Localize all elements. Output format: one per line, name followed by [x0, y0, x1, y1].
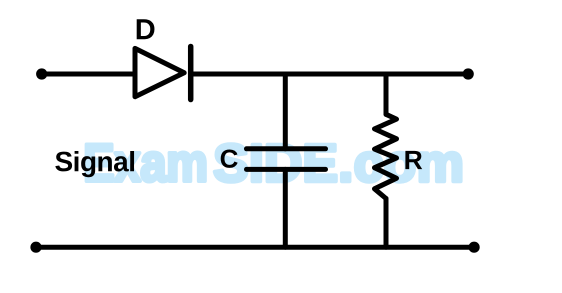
diode D cathode bar — [188, 47, 194, 100]
terminal dot top-left — [36, 68, 47, 79]
capacitor C top lead wire — [283, 74, 288, 149]
resistor R top lead wire — [384, 74, 389, 114]
watermark ExamSIDE.com — [83, 134, 464, 193]
svg-text:.com: .com — [338, 134, 464, 193]
svg-text:C: C — [220, 144, 239, 174]
resistor R zigzag — [375, 114, 397, 198]
terminal dot top-right — [463, 68, 474, 79]
terminal dot bottom-left — [30, 242, 41, 253]
svg-text:Signal: Signal — [54, 146, 135, 177]
terminal dot bottom-right — [469, 242, 480, 253]
svg-text:R: R — [404, 145, 423, 175]
capacitor C bottom plate — [247, 167, 326, 172]
wire top-right (cathode to right terminal) — [191, 72, 469, 77]
diode D triangle — [135, 48, 184, 96]
resistor R bottom lead wire — [384, 199, 389, 248]
wire bottom — [36, 245, 474, 250]
capacitor C bottom lead wire — [283, 169, 288, 247]
svg-text:D: D — [135, 14, 156, 46]
capacitor C top plate — [247, 146, 326, 151]
wire top-left (anode side) — [42, 72, 135, 77]
